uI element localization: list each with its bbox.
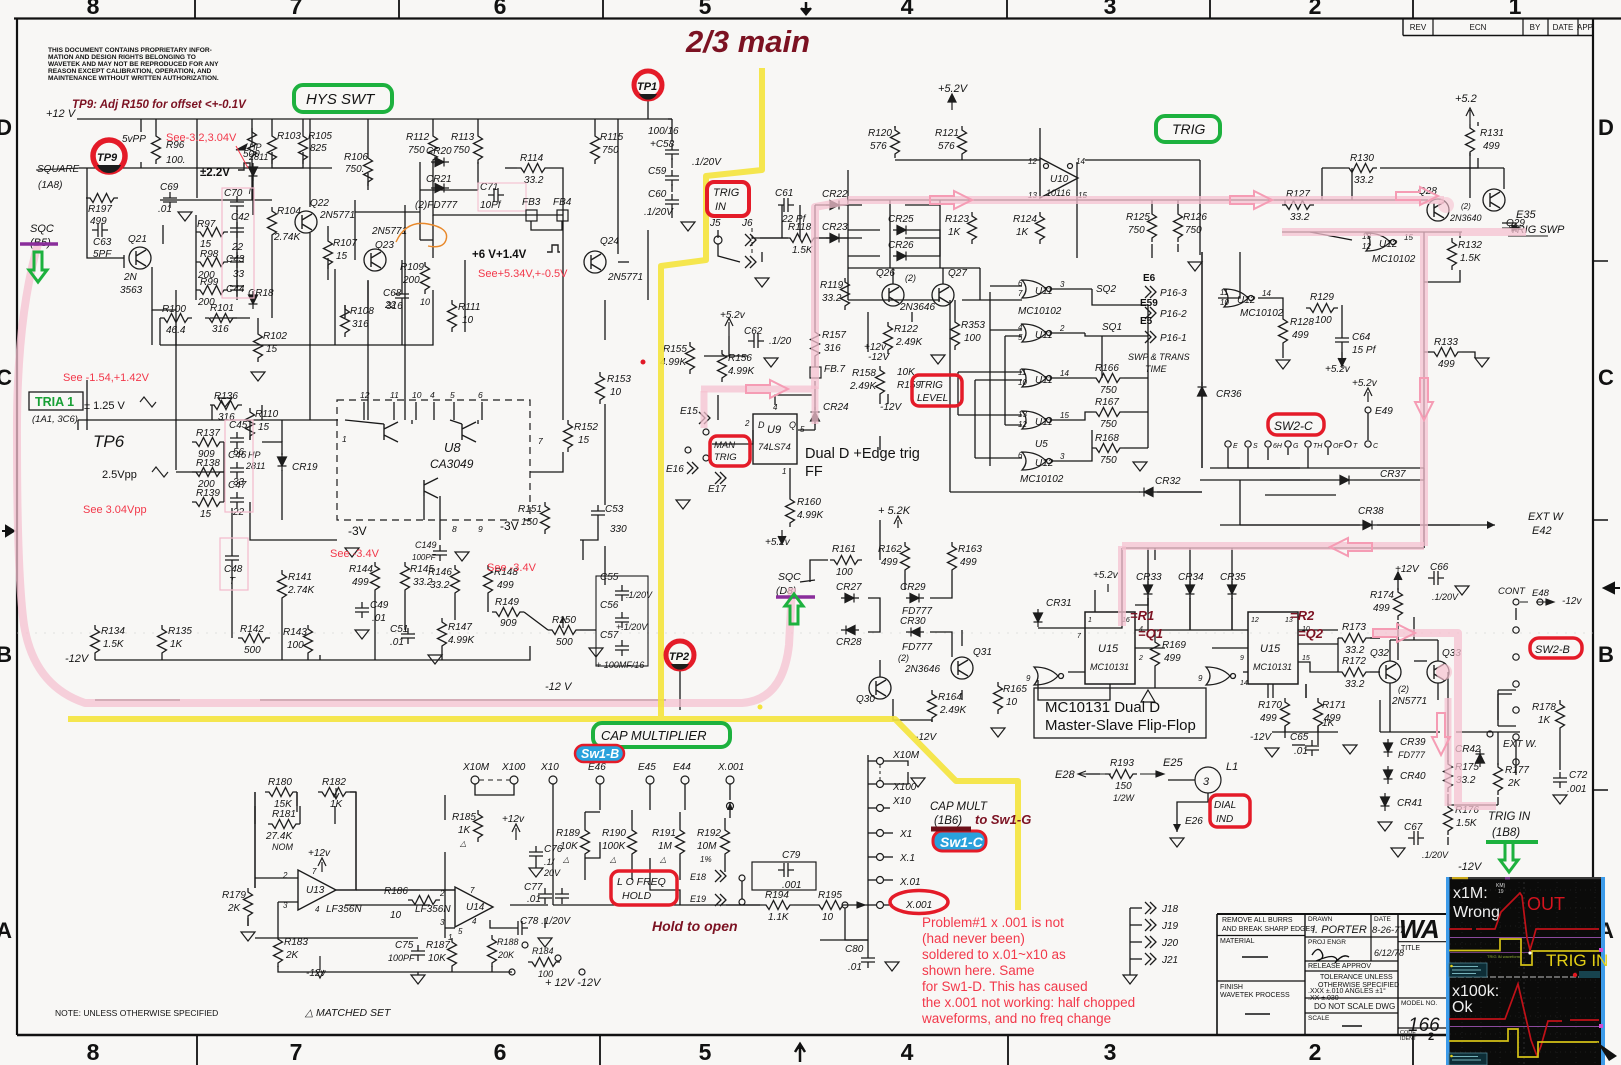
svg-text:Q26: Q26 — [876, 268, 895, 279]
svg-text:FD777: FD777 — [1398, 750, 1426, 760]
svg-text:7: 7 — [1018, 289, 1023, 298]
svg-text:C47: C47 — [228, 480, 247, 491]
svg-text:=Q1: =Q1 — [1138, 626, 1163, 641]
svg-text:C66: C66 — [1430, 562, 1449, 573]
svg-text:TITLE: TITLE — [1401, 945, 1420, 952]
svg-text:R163: R163 — [958, 544, 982, 555]
svg-text:TRIG: TRIG — [713, 187, 740, 199]
svg-text:C77: C77 — [524, 882, 543, 893]
svg-text:R133: R133 — [1434, 337, 1458, 348]
svg-text:J6: J6 — [741, 218, 753, 229]
svg-text:R111: R111 — [458, 302, 480, 313]
svg-text:MAN: MAN — [714, 440, 735, 451]
svg-text:±2.2V: ±2.2V — [200, 167, 230, 179]
svg-text:7: 7 — [538, 436, 543, 446]
svg-text:DO NOT SCALE DWG: DO NOT SCALE DWG — [1314, 1002, 1395, 1011]
svg-text:X1: X1 — [899, 829, 912, 840]
svg-text:500: 500 — [244, 645, 261, 656]
svg-text:R181: R181 — [272, 809, 296, 820]
svg-text:RELEASE APPROV: RELEASE APPROV — [1308, 963, 1371, 970]
svg-text:E46: E46 — [588, 762, 606, 773]
svg-text:MC10131 Dual D: MC10131 Dual D — [1045, 699, 1160, 716]
svg-text:750: 750 — [1100, 455, 1117, 466]
svg-text:7: 7 — [290, 0, 303, 19]
svg-text:R114: R114 — [520, 153, 544, 164]
svg-text:NOTE: UNLESS OTHERWISE SPECIF: NOTE: UNLESS OTHERWISE SPECIFIED — [55, 1008, 218, 1018]
svg-text:△: △ — [659, 855, 666, 864]
svg-text:R99: R99 — [200, 277, 219, 288]
svg-text:ECN: ECN — [1470, 23, 1487, 32]
svg-text:R166: R166 — [1095, 363, 1119, 374]
svg-text:4: 4 — [1018, 323, 1023, 332]
svg-text:R101: R101 — [210, 303, 234, 314]
svg-text:.1/20V: .1/20V — [1422, 850, 1449, 860]
svg-text:R110: R110 — [255, 409, 279, 420]
svg-text:△: △ — [459, 839, 466, 848]
svg-text:C149: C149 — [415, 540, 437, 550]
svg-text:.01: .01 — [372, 613, 386, 624]
svg-text:+ 12V -12V: + 12V -12V — [545, 977, 602, 989]
svg-text:CONT: CONT — [1498, 586, 1526, 597]
svg-text:2: 2 — [1138, 655, 1143, 662]
svg-text:9: 9 — [1240, 655, 1244, 662]
svg-text:R192: R192 — [697, 828, 721, 839]
svg-text:B: B — [1598, 642, 1614, 667]
svg-text:2N5771: 2N5771 — [371, 226, 407, 237]
svg-text:J21: J21 — [1161, 955, 1178, 966]
svg-text:TIME: TIME — [1145, 364, 1167, 374]
svg-text:2N5771: 2N5771 — [1391, 696, 1427, 707]
svg-text:R182: R182 — [322, 777, 346, 788]
svg-text:6: 6 — [1018, 279, 1023, 288]
svg-text:10: 10 — [390, 910, 402, 921]
svg-text:.01: .01 — [527, 894, 541, 905]
svg-text:+5.2v: +5.2v — [1093, 570, 1119, 581]
svg-text:2811: 2811 — [245, 461, 265, 471]
svg-text:CAP MULT: CAP MULT — [930, 801, 988, 813]
svg-text:C46: C46 — [228, 450, 247, 461]
svg-text:.1/20V: .1/20V — [1432, 592, 1459, 602]
svg-text:E16: E16 — [666, 464, 684, 475]
svg-text:R130: R130 — [1350, 153, 1374, 164]
svg-text:100: 100 — [287, 640, 304, 651]
svg-text:MC10102: MC10102 — [1240, 308, 1284, 319]
svg-text:R178: R178 — [1532, 702, 1556, 713]
svg-text:AND BREAK SHARP EDGES: AND BREAK SHARP EDGES — [1222, 926, 1315, 933]
svg-text:1.5K: 1.5K — [1456, 818, 1478, 829]
svg-text:R164: R164 — [938, 692, 962, 703]
svg-text:-12V: -12V — [65, 653, 90, 665]
svg-text:SQC: SQC — [778, 571, 801, 583]
svg-text:1: 1 — [342, 434, 347, 444]
svg-text:OF: OF — [1333, 443, 1343, 450]
svg-text:R165: R165 — [1003, 684, 1027, 695]
svg-text:100: 100 — [964, 333, 981, 344]
svg-text:FB4: FB4 — [553, 197, 572, 208]
svg-text:22: 22 — [231, 242, 244, 253]
svg-text:TRIG: TRIG — [1172, 121, 1206, 137]
svg-text:(1B6): (1B6) — [934, 815, 962, 827]
svg-text:150: 150 — [1115, 781, 1132, 792]
svg-text:4.99K: 4.99K — [448, 635, 475, 646]
svg-text:+5.2v: +5.2v — [1352, 378, 1378, 389]
svg-text:CR32: CR32 — [1155, 476, 1181, 487]
svg-text:7: 7 — [290, 1039, 303, 1065]
svg-text:X10M: X10M — [462, 762, 490, 773]
svg-text:.1/20: .1/20 — [769, 336, 792, 347]
svg-text:R157: R157 — [822, 330, 846, 341]
svg-text:E18: E18 — [690, 872, 706, 882]
svg-text:Ok: Ok — [1452, 999, 1473, 1016]
svg-text:See -3.4V: See -3.4V — [330, 548, 380, 560]
svg-text:C59: C59 — [648, 166, 667, 177]
svg-text:13: 13 — [1018, 410, 1027, 419]
svg-text:CR41: CR41 — [1397, 798, 1423, 809]
svg-text:EXT W: EXT W — [1528, 511, 1564, 523]
svg-text:=Q2: =Q2 — [1298, 626, 1324, 641]
svg-text:10: 10 — [1220, 298, 1229, 307]
svg-text:C79: C79 — [782, 850, 801, 861]
svg-text:U10: U10 — [1050, 174, 1069, 185]
svg-text:C70: C70 — [224, 188, 243, 199]
svg-text:R109: R109 — [400, 262, 424, 273]
svg-text:8: 8 — [87, 0, 100, 19]
svg-text:MAINTENANCE WITHOUT WRITTEN AU: MAINTENANCE WITHOUT WRITTEN AUTHORIZATIO… — [48, 75, 219, 82]
svg-text:C65: C65 — [1290, 732, 1309, 743]
svg-text:FINISH: FINISH — [1220, 984, 1243, 991]
svg-text:△ MATCHED SET: △ MATCHED SET — [304, 1007, 392, 1019]
svg-text:-12V: -12V — [868, 352, 890, 363]
svg-text:CR31: CR31 — [1046, 598, 1072, 609]
svg-text:2K: 2K — [285, 950, 300, 961]
svg-text:316: 316 — [824, 343, 841, 354]
svg-text:2: 2 — [1428, 1031, 1434, 1043]
svg-text:NOM: NOM — [272, 842, 294, 852]
svg-text:=R1: =R1 — [1130, 608, 1154, 623]
svg-text:R183: R183 — [284, 937, 308, 948]
svg-text:10Pf: 10Pf — [480, 200, 502, 211]
svg-text:C44: C44 — [226, 284, 245, 295]
svg-text:R128: R128 — [1290, 317, 1314, 328]
svg-text:X10: X10 — [892, 796, 911, 807]
svg-text:2N3640: 2N3640 — [1449, 213, 1482, 223]
svg-text:SQC: SQC — [30, 223, 54, 235]
svg-text:14: 14 — [1060, 369, 1069, 378]
svg-text:J18: J18 — [1161, 904, 1179, 915]
svg-text:R136: R136 — [214, 391, 238, 402]
svg-text:5: 5 — [699, 1039, 712, 1065]
svg-text:R177: R177 — [1505, 765, 1529, 776]
svg-text:R119: R119 — [820, 280, 844, 291]
svg-text:4: 4 — [472, 917, 477, 926]
svg-text:(had never been): (had never been) — [922, 931, 1025, 946]
svg-text:-12V: -12V — [880, 402, 902, 413]
svg-text:U12: U12 — [1035, 458, 1054, 469]
svg-text:33.2: 33.2 — [822, 293, 842, 304]
svg-text:C49: C49 — [370, 600, 389, 611]
svg-text:1: 1 — [782, 467, 786, 476]
svg-text:C43: C43 — [226, 254, 245, 265]
svg-text:1M: 1M — [658, 841, 673, 852]
svg-text:10: 10 — [822, 912, 834, 923]
svg-text:TP2: TP2 — [669, 651, 689, 663]
svg-text:499: 499 — [352, 577, 369, 588]
svg-text:Problem#1 x .001 is not: Problem#1 x .001 is not — [922, 915, 1064, 930]
svg-text:E6: E6 — [1143, 273, 1156, 284]
svg-text:C78 .1/20V: C78 .1/20V — [520, 916, 571, 927]
svg-text:15: 15 — [266, 344, 278, 355]
svg-text:U8: U8 — [444, 440, 461, 455]
svg-text:499: 499 — [1438, 359, 1455, 370]
svg-text:CR30: CR30 — [900, 616, 926, 627]
svg-text:DRAWN: DRAWN — [1308, 916, 1333, 923]
svg-text:TRIG IN: TRIG IN — [1488, 811, 1531, 823]
svg-text:3: 3 — [1060, 452, 1065, 461]
svg-text:I. PORTER: I. PORTER — [1312, 924, 1367, 936]
svg-text:See -1.54,+1.42V: See -1.54,+1.42V — [63, 372, 150, 384]
svg-text:2N5771: 2N5771 — [607, 272, 643, 283]
svg-text:100PF: 100PF — [412, 553, 437, 562]
svg-text:33.2: 33.2 — [1354, 175, 1374, 186]
svg-text:R190: R190 — [602, 828, 626, 839]
svg-text:IN: IN — [715, 201, 726, 213]
svg-text:R159: R159 — [897, 380, 921, 391]
svg-text:HYS SWT: HYS SWT — [306, 91, 376, 108]
svg-text:499: 499 — [1373, 603, 1390, 614]
svg-text:SQ1: SQ1 — [1102, 322, 1122, 333]
svg-text:499: 499 — [1164, 653, 1181, 664]
svg-text:± 1.25 V: ± 1.25 V — [84, 400, 126, 412]
svg-text:-3V: -3V — [500, 519, 519, 533]
svg-text:shown here. Same: shown here. Same — [922, 963, 1035, 978]
svg-text:R158: R158 — [852, 368, 876, 379]
svg-text:+12v: +12v — [864, 342, 887, 353]
svg-text:DATE: DATE — [1374, 916, 1392, 923]
svg-text:12: 12 — [1028, 157, 1037, 166]
svg-text:U15: U15 — [1260, 643, 1281, 655]
svg-text:+5.2v: +5.2v — [720, 310, 746, 321]
svg-text:U11: U11 — [1035, 375, 1053, 386]
svg-text:.XX ±.030: .XX ±.030 — [1308, 995, 1339, 1002]
svg-text:X10M: X10M — [892, 750, 920, 761]
svg-text:750: 750 — [453, 145, 470, 156]
svg-text:.1/: .1/ — [544, 857, 556, 867]
svg-text:750: 750 — [408, 145, 425, 156]
svg-text:E5: E5 — [1140, 316, 1153, 327]
svg-text:15: 15 — [336, 251, 348, 262]
svg-text:FB3: FB3 — [522, 197, 541, 208]
svg-text:5: 5 — [1018, 333, 1023, 342]
svg-text:CR38: CR38 — [1358, 506, 1384, 517]
svg-text:Wrong: Wrong — [1453, 904, 1500, 921]
svg-text:R160: R160 — [797, 497, 821, 508]
svg-text:316: 316 — [212, 324, 229, 335]
svg-text:1.1K: 1.1K — [768, 912, 790, 923]
svg-text:R143: R143 — [283, 627, 307, 638]
svg-text:LF356N: LF356N — [415, 904, 451, 915]
svg-text:R169: R169 — [1162, 640, 1186, 651]
svg-text:MATION AND DESIGN RIGHTS: MATION AND DESIGN RIGHTS BELONGING TO — [48, 54, 196, 61]
svg-text:1K: 1K — [1016, 227, 1030, 238]
svg-text:A: A — [0, 918, 12, 943]
svg-text:△: △ — [562, 855, 569, 864]
svg-text:750: 750 — [1128, 225, 1145, 236]
svg-text:20K: 20K — [497, 950, 515, 960]
svg-text:Q30: Q30 — [856, 694, 875, 705]
svg-text:C80: C80 — [845, 944, 864, 955]
svg-text:R124: R124 — [1013, 214, 1037, 225]
svg-text:6: 6 — [1018, 451, 1023, 460]
svg-text:U5: U5 — [1035, 439, 1048, 450]
svg-text:9: 9 — [1198, 674, 1203, 683]
svg-text:(2): (2) — [1398, 684, 1409, 694]
svg-text:R103: R103 — [277, 131, 301, 142]
svg-text:L O FREQ: L O FREQ — [617, 876, 666, 888]
svg-text:4.99K: 4.99K — [797, 510, 824, 521]
svg-text:R121: R121 — [935, 128, 959, 139]
svg-text:to Sw1-G: to Sw1-G — [975, 812, 1031, 827]
svg-text:R180: R180 — [268, 777, 292, 788]
svg-text:(2): (2) — [1461, 202, 1471, 211]
svg-text:12: 12 — [1018, 420, 1027, 429]
svg-text:2K: 2K — [1507, 778, 1522, 789]
svg-text:waveforms, and no freq change: waveforms, and no freq change — [921, 1011, 1111, 1026]
svg-text:TRIG IN waveform: TRIG IN waveform — [1487, 954, 1521, 959]
svg-text:CR35: CR35 — [1220, 572, 1246, 583]
svg-text:R194: R194 — [765, 890, 789, 901]
svg-text:E: E — [1233, 443, 1238, 450]
svg-text:BY: BY — [1530, 23, 1541, 32]
svg-text:Q21: Q21 — [128, 234, 147, 245]
svg-text:MC10102: MC10102 — [1020, 474, 1064, 485]
svg-text:3: 3 — [1060, 280, 1065, 289]
svg-text:500: 500 — [556, 637, 573, 648]
svg-text:U12: U12 — [1379, 239, 1398, 250]
svg-text:5PF: 5PF — [93, 249, 112, 260]
svg-text:x100k:: x100k: — [1452, 983, 1499, 1000]
svg-text:Q24: Q24 — [600, 236, 619, 247]
svg-text:R142: R142 — [240, 624, 264, 635]
svg-text:J20: J20 — [1161, 938, 1179, 949]
svg-text:10M: 10M — [697, 841, 717, 852]
svg-text:C72: C72 — [1569, 770, 1588, 781]
svg-text:100PF: 100PF — [388, 953, 415, 963]
svg-text:HOLD: HOLD — [622, 890, 652, 902]
svg-text:R162: R162 — [878, 544, 902, 555]
svg-text:C64: C64 — [1352, 332, 1371, 343]
svg-text:4.99K: 4.99K — [660, 357, 687, 368]
svg-text:750: 750 — [1100, 385, 1117, 396]
svg-text:46.4: 46.4 — [166, 325, 186, 336]
svg-text:2: 2 — [1309, 0, 1322, 19]
svg-text:C: C — [1598, 365, 1614, 390]
svg-text:REASON EXCEPT CALIBRATION,: REASON EXCEPT CALIBRATION, OPERATION, AN… — [48, 68, 211, 75]
svg-text:R102: R102 — [263, 331, 287, 342]
svg-text:P16-3: P16-3 — [1160, 288, 1187, 299]
svg-text:SQ2: SQ2 — [1096, 284, 1116, 295]
svg-text:4: 4 — [901, 0, 914, 19]
svg-text:C57: C57 — [600, 630, 619, 641]
svg-text:750.: 750. — [345, 164, 364, 175]
svg-text:E17: E17 — [708, 484, 726, 495]
svg-text:+12v: +12v — [502, 814, 525, 825]
svg-text:11: 11 — [390, 390, 399, 400]
svg-text:499: 499 — [960, 557, 977, 568]
svg-text:33: 33 — [233, 269, 245, 280]
svg-text:Hold to open: Hold to open — [652, 918, 738, 934]
svg-text:SCALE: SCALE — [1308, 1015, 1330, 1022]
svg-text:U11: U11 — [1035, 417, 1053, 428]
svg-text:R108: R108 — [350, 306, 374, 317]
svg-text:100: 100 — [1315, 315, 1332, 326]
svg-text:EXT W.: EXT W. — [1503, 739, 1537, 750]
svg-text:SWP & TRANS: SWP & TRANS — [1128, 352, 1190, 362]
svg-text:R112: R112 — [406, 132, 430, 143]
svg-text:2.74K: 2.74K — [287, 585, 315, 596]
svg-text:C67: C67 — [1404, 822, 1423, 833]
svg-text:R189: R189 — [556, 828, 580, 839]
svg-text:See -3.4V: See -3.4V — [487, 562, 537, 574]
svg-text:FF: FF — [805, 464, 823, 480]
svg-text:1K: 1K — [948, 227, 962, 238]
svg-text:TRIG IN: TRIG IN — [1546, 951, 1608, 970]
svg-text:9: 9 — [478, 524, 483, 534]
svg-text:576: 576 — [938, 141, 955, 152]
svg-text:J5: J5 — [709, 218, 721, 229]
svg-text:2.49K: 2.49K — [939, 705, 967, 716]
svg-text:TRIG: TRIG — [714, 452, 737, 463]
svg-text:U13: U13 — [306, 885, 325, 896]
svg-text:R113: R113 — [451, 132, 475, 143]
svg-text:R197: R197 — [88, 204, 112, 215]
svg-text:CR37: CR37 — [1380, 469, 1406, 480]
svg-text:soldered to x.01~x10 as: soldered to x.01~x10 as — [922, 947, 1066, 962]
svg-text:TH: TH — [1313, 443, 1323, 450]
svg-text:R146: R146 — [428, 567, 452, 578]
svg-text:200: 200 — [402, 275, 420, 286]
svg-text:2: 2 — [744, 419, 750, 428]
svg-text:C53: C53 — [605, 504, 624, 515]
svg-text:R144: R144 — [349, 564, 373, 575]
svg-text:IDENT: IDENT — [1400, 1036, 1417, 1042]
svg-text:CR27: CR27 — [836, 582, 862, 593]
svg-text:R106: R106 — [344, 152, 368, 163]
svg-text:R191: R191 — [652, 828, 676, 839]
svg-text:R170: R170 — [1258, 700, 1282, 711]
svg-text:(2): (2) — [905, 273, 916, 283]
svg-text:CR24: CR24 — [823, 402, 849, 413]
svg-text:L1: L1 — [1226, 761, 1238, 773]
svg-text:R173: R173 — [1342, 622, 1366, 633]
svg-text:(2): (2) — [898, 653, 909, 663]
svg-text:15: 15 — [200, 509, 212, 520]
svg-text:2.49K: 2.49K — [849, 381, 877, 392]
svg-text:4: 4 — [315, 905, 320, 914]
svg-text:CR29: CR29 — [900, 582, 926, 593]
svg-text:2.74K: 2.74K — [273, 232, 301, 243]
svg-text:.001: .001 — [1567, 784, 1586, 795]
svg-text:150: 150 — [521, 517, 538, 528]
svg-text:R167: R167 — [1095, 397, 1119, 408]
svg-text:PROJ ENGR: PROJ ENGR — [1308, 939, 1346, 946]
svg-text:15 Pf: 15 Pf — [1352, 345, 1377, 356]
svg-text:MC10131: MC10131 — [1090, 662, 1129, 672]
svg-text:See 3.04Vpp: See 3.04Vpp — [83, 504, 147, 516]
svg-text:5: 5 — [699, 0, 712, 19]
svg-text:2K: 2K — [227, 903, 242, 914]
svg-text:MC10102: MC10102 — [1018, 306, 1062, 317]
svg-text:R161: R161 — [832, 544, 856, 555]
